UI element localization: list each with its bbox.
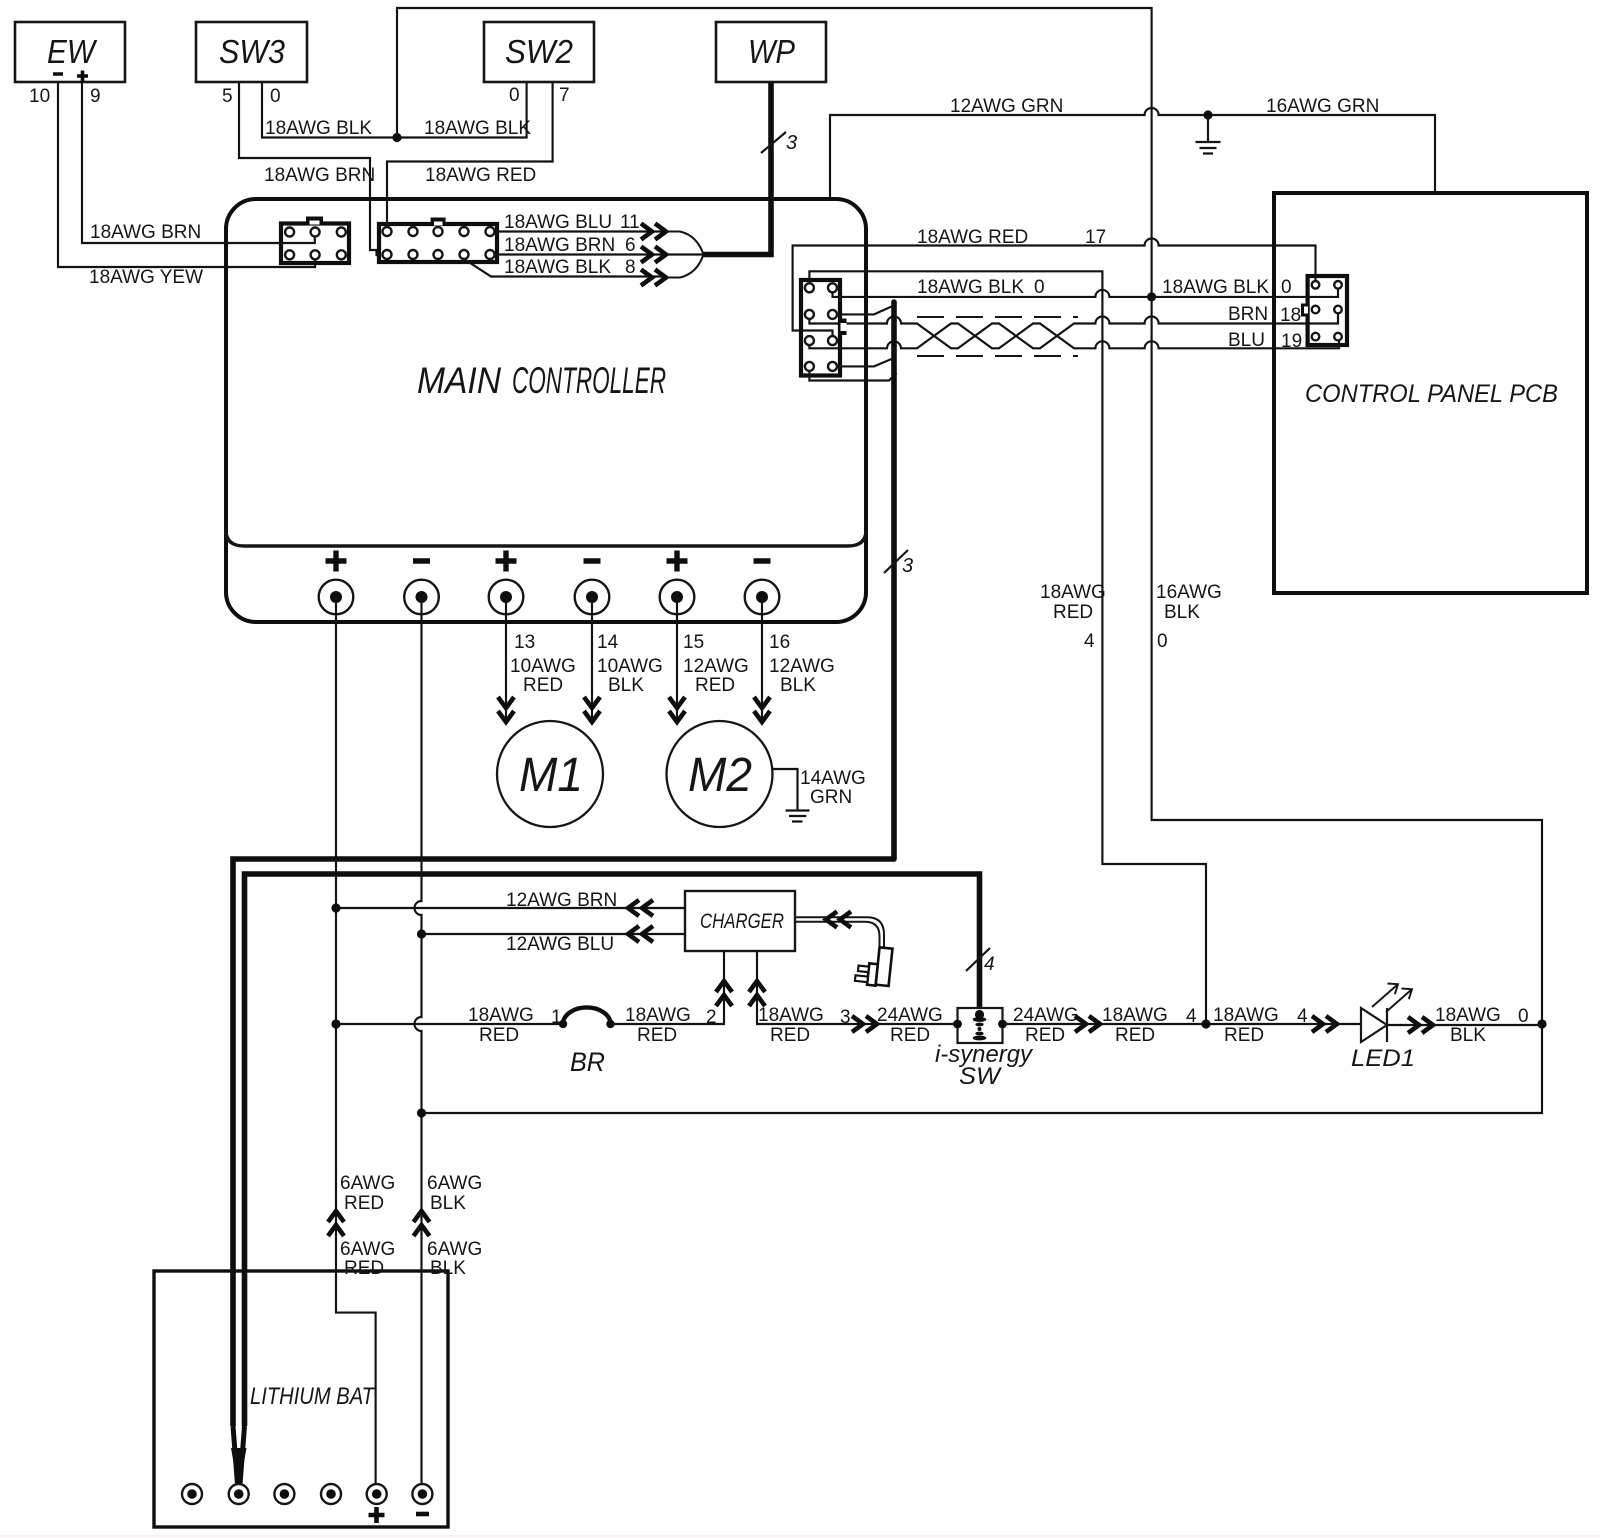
- svg-text:18AWG BRN: 18AWG BRN: [264, 165, 375, 186]
- svg-text:18AWG YEW: 18AWG YEW: [89, 267, 203, 288]
- label 18AWG RED 4a: [1102, 1005, 1197, 1046]
- svg-text:12AWG: 12AWG: [683, 656, 749, 677]
- SW3 box: [196, 22, 307, 82]
- wire J3 r4L into cable: [809, 371, 896, 381]
- svg-text:3: 3: [840, 1007, 851, 1028]
- svg-text:18AWG: 18AWG: [758, 1005, 824, 1026]
- node BRN charger tap: [331, 903, 340, 912]
- cable brace to WP: [666, 82, 797, 278]
- svg-text:RED: RED: [890, 1025, 930, 1046]
- cable bundle 3 from J3 down: [884, 302, 913, 859]
- switch i-synergy SW: [935, 1008, 1034, 1090]
- svg-text:CONTROL PANEL PCB: CONTROL PANEL PCB: [1305, 380, 1558, 408]
- svg-text:14: 14: [597, 632, 619, 653]
- terminal 4 M1 minus: [575, 580, 610, 615]
- svg-text:BLK: BLK: [430, 1258, 466, 1279]
- svg-text:18AWG RED: 18AWG RED: [425, 165, 536, 186]
- wire 18AWG RED 4 from J3 r1L: [809, 271, 1206, 1024]
- terminal 5 M2 plus: [660, 580, 695, 615]
- svg-text:16: 16: [769, 632, 790, 653]
- svg-text:18AWG BLK: 18AWG BLK: [917, 277, 1024, 298]
- label 18AWG RED 3: [758, 1005, 851, 1046]
- label 10AWG BLK: [597, 656, 663, 696]
- EW box: [15, 22, 125, 82]
- wire 13 10AWG RED: [498, 597, 514, 722]
- node BLK tap: [1147, 292, 1156, 301]
- svg-text:SW2: SW2: [505, 33, 573, 70]
- node BLK junction top: [392, 133, 401, 142]
- wire 18AWG RED 17 J3 to J4: [793, 239, 1316, 337]
- wire 15 12AWG RED: [669, 597, 685, 722]
- LITHIUM BAT box: [154, 1271, 448, 1527]
- node RED BR tap: [331, 1019, 340, 1028]
- node BLK LED junction: [1537, 1019, 1546, 1028]
- svg-text:MAIN: MAIN: [417, 360, 501, 401]
- terminal 1 plus: [319, 580, 354, 615]
- node RED 4 junction: [1201, 1019, 1210, 1028]
- label 16: [769, 632, 790, 653]
- label 10: [29, 86, 50, 107]
- fuse BR: [559, 1007, 615, 1077]
- svg-text:RED: RED: [637, 1025, 677, 1046]
- svg-text:BLU: BLU: [1228, 330, 1265, 351]
- label 7 SW2: [559, 85, 570, 106]
- battery terminal 2: [229, 1484, 249, 1504]
- svg-text:RED: RED: [344, 1193, 384, 1214]
- label 13: [514, 632, 535, 653]
- svg-text:4: 4: [1084, 631, 1095, 652]
- wire charger to i-synergy 18AWG RED 3: [749, 951, 958, 1032]
- label 12AWG RED: [683, 656, 749, 696]
- svg-text:6: 6: [625, 235, 636, 256]
- svg-text:0: 0: [1034, 277, 1045, 298]
- wire 12AWG BRN charger: [336, 900, 685, 916]
- wire SW3 pin0 18AWG BLK: [262, 82, 397, 138]
- wire battery negative cable lower bus to i-synergy: [245, 874, 980, 1426]
- label 18AWG BRN EW: [90, 222, 201, 243]
- svg-text:BRN: BRN: [1228, 304, 1268, 325]
- label 12AWG GRN: [950, 96, 1063, 117]
- wire twisted pair BRN 18: [809, 313, 1338, 348]
- label 14: [597, 632, 619, 653]
- node BLU charger tap: [417, 929, 426, 938]
- label 18AWG RED mid: [425, 165, 536, 186]
- label 6AWG BLK lower: [427, 1239, 482, 1279]
- battery terminal 5 plus: [367, 1484, 387, 1523]
- wire controller plus to battery: [336, 597, 376, 1484]
- label 24AWG RED right: [1013, 1005, 1079, 1046]
- svg-text:18AWG: 18AWG: [1040, 582, 1106, 603]
- connector J4 (6-pin, control panel): [1301, 276, 1347, 345]
- label 18AWG RED 1: [468, 1005, 562, 1046]
- label 16AWG BLK 0 vertical: [1156, 582, 1222, 652]
- label 12AWG BRN: [506, 890, 617, 911]
- wire BR to charger 18AWG RED 2: [611, 951, 733, 1024]
- svg-text:BLK: BLK: [1164, 602, 1200, 623]
- label 6AWG RED lower: [340, 1239, 395, 1279]
- wire 18AWG RED plus to BR: [336, 1023, 563, 1025]
- CONTROL PANEL PCB box: [1274, 193, 1587, 593]
- wire EW plus 18AWG BRN: [82, 82, 315, 243]
- charger AC cord: [795, 912, 884, 950]
- MAIN CONTROLLER box: [226, 199, 866, 622]
- ground symbol M2: [786, 811, 810, 822]
- label 0 SW2: [509, 85, 520, 106]
- svg-text:24AWG: 24AWG: [1013, 1005, 1079, 1026]
- svg-text:BLK: BLK: [430, 1193, 466, 1214]
- svg-text:GRN: GRN: [810, 787, 852, 808]
- svg-text:SW: SW: [959, 1063, 1002, 1090]
- wire EW minus 18AWG YEW: [58, 82, 315, 267]
- battery terminal 4: [321, 1484, 341, 1504]
- svg-text:10: 10: [29, 86, 50, 107]
- svg-text:WP: WP: [748, 33, 795, 70]
- terminal 3 M1 plus: [489, 580, 524, 615]
- label 15: [683, 632, 704, 653]
- svg-text:18AWG BLK: 18AWG BLK: [265, 118, 372, 139]
- svg-text:16AWG GRN: 16AWG GRN: [1266, 96, 1379, 117]
- svg-text:12AWG BLU: 12AWG BLU: [506, 934, 614, 955]
- svg-text:6AWG: 6AWG: [340, 1173, 395, 1194]
- node BLK bottom tap: [417, 1108, 426, 1117]
- label 18AWG RED 2: [625, 1005, 717, 1046]
- svg-text:RED: RED: [479, 1025, 519, 1046]
- svg-text:4: 4: [1186, 1006, 1197, 1027]
- svg-text:12AWG: 12AWG: [769, 656, 835, 677]
- svg-text:18AWG: 18AWG: [1102, 1005, 1168, 1026]
- label BLU 19: [1228, 330, 1302, 352]
- svg-text:16AWG: 16AWG: [1156, 582, 1222, 603]
- label 6AWG BLK upper: [427, 1173, 482, 1214]
- wire controller minus to battery: [415, 597, 422, 1484]
- label 18AWG RED 17: [917, 227, 1106, 248]
- svg-text:M1: M1: [519, 749, 583, 802]
- pins J4: [1312, 281, 1342, 340]
- wire LED to BLK 18AWG BLK 0: [1387, 1017, 1542, 1033]
- svg-text:6AWG: 6AWG: [427, 1173, 482, 1194]
- label 18AWG BRN 6: [504, 235, 636, 256]
- wire i-synergy to LED 24AWG 18AWG RED 4: [1003, 1016, 1362, 1032]
- terminal 6 M2 minus: [745, 580, 780, 615]
- svg-text:18: 18: [1280, 305, 1301, 326]
- LED LED1: [1351, 984, 1415, 1073]
- wire 14 10AWG BLK: [584, 597, 600, 722]
- wire J2 to brace 18AWG BRN 6: [495, 253, 704, 255]
- label 18AWG BLK 0 right: [1162, 277, 1292, 298]
- svg-text:18AWG BRN: 18AWG BRN: [504, 235, 615, 256]
- svg-text:18AWG BLK: 18AWG BLK: [504, 257, 611, 278]
- svg-text:18AWG: 18AWG: [468, 1005, 534, 1026]
- label 18AWG BLU 11: [504, 212, 640, 233]
- label 12AWG BLU: [506, 934, 614, 955]
- AC plug: [855, 945, 893, 987]
- label 6AWG RED upper: [340, 1173, 395, 1214]
- bottom scan edge: [0, 1536, 1600, 1537]
- svg-text:5: 5: [222, 86, 233, 107]
- svg-text:BR: BR: [570, 1047, 605, 1077]
- svg-text:RED: RED: [1053, 602, 1093, 623]
- wire SW2 pin0 18AWG BLK: [397, 82, 527, 138]
- label 18AWG BLK 0 led: [1435, 1005, 1529, 1046]
- svg-text:4: 4: [1297, 1006, 1308, 1027]
- svg-text:8: 8: [625, 257, 636, 278]
- svg-text:17: 17: [1085, 227, 1106, 248]
- battery terminal 3: [274, 1484, 294, 1504]
- wire 16 12AWG BLK: [754, 597, 770, 722]
- label 9: [90, 86, 101, 107]
- svg-text:18AWG BLK: 18AWG BLK: [1162, 277, 1269, 298]
- pins J2: [383, 227, 495, 259]
- wire J3 r4R into cable: [837, 359, 892, 366]
- svg-text:10AWG: 10AWG: [510, 656, 576, 677]
- label 18AWG BLK 8: [504, 257, 636, 278]
- svg-text:18AWG BLK: 18AWG BLK: [424, 118, 531, 139]
- chevrons BLK row: [641, 270, 666, 286]
- label 18AWG BRN mid: [264, 165, 375, 186]
- wire BLK net top bus to control panel column: [397, 8, 1152, 297]
- svg-text:0: 0: [1157, 631, 1168, 652]
- svg-text:RED: RED: [1115, 1025, 1155, 1046]
- svg-text:15: 15: [683, 632, 704, 653]
- label 18AWG RED 4 vertical: [1040, 582, 1106, 652]
- svg-text:M2: M2: [688, 749, 752, 802]
- wire battery positive cable upper bus: [233, 859, 894, 1426]
- node GRN ground junction: [1203, 110, 1212, 119]
- svg-text:12AWG BRN: 12AWG BRN: [506, 890, 617, 911]
- label BRN 18: [1228, 304, 1301, 326]
- svg-text:SW3: SW3: [219, 33, 286, 70]
- svg-text:RED: RED: [770, 1025, 810, 1046]
- chevrons BLU row: [641, 224, 666, 240]
- svg-text:18AWG: 18AWG: [1213, 1005, 1279, 1026]
- CHARGER box: [685, 891, 795, 951]
- svg-text:RED: RED: [1224, 1025, 1264, 1046]
- svg-text:2: 2: [706, 1007, 717, 1028]
- label 12AWG BLK: [769, 656, 835, 696]
- svg-text:18AWG BLU: 18AWG BLU: [504, 212, 612, 233]
- terminal 2 minus: [404, 580, 439, 615]
- twisted pair shield dashes: [917, 317, 1078, 356]
- svg-text:EW: EW: [47, 33, 98, 70]
- chevrons BRN row: [641, 247, 666, 263]
- cable 4 slash: [966, 948, 995, 975]
- svg-text:7: 7: [559, 85, 570, 106]
- wire J3 r2R into cable: [837, 307, 892, 315]
- svg-text:CONTROLLER: CONTROLLER: [512, 360, 666, 401]
- svg-text:BLK: BLK: [780, 675, 816, 696]
- pins J1: [285, 228, 346, 260]
- connector J2 (10-pin): [379, 218, 497, 263]
- wire 18AWG BLK 0 J3 to J4: [833, 289, 1339, 297]
- svg-text:CHARGER: CHARGER: [700, 910, 784, 933]
- svg-text:0: 0: [270, 86, 281, 107]
- wire J2 to brace 18AWG BLK 8: [464, 259, 666, 277]
- svg-text:19: 19: [1281, 331, 1302, 352]
- connector J1 (6-pin, EW): [281, 217, 349, 264]
- ground symbol top: [1196, 115, 1221, 154]
- battery terminal 1: [182, 1484, 202, 1504]
- wire 12AWG GRN controller to ground: [830, 108, 1435, 199]
- label 16AWG GRN: [1266, 96, 1379, 117]
- svg-text:RED: RED: [695, 675, 735, 696]
- svg-text:LED1: LED1: [1351, 1045, 1415, 1072]
- svg-text:14AWG: 14AWG: [800, 768, 866, 789]
- svg-text:0: 0: [509, 85, 520, 106]
- wire J2 to brace 18AWG BLU 11: [495, 230, 667, 232]
- svg-text:18AWG RED: 18AWG RED: [917, 227, 1028, 248]
- svg-text:LITHIUM BAT: LITHIUM BAT: [250, 1383, 376, 1410]
- svg-text:11: 11: [620, 212, 640, 233]
- label 0 SW3: [270, 86, 281, 107]
- battery terminal 6 minus: [412, 1484, 432, 1514]
- label 18AWG RED 4b: [1213, 1005, 1308, 1046]
- wire SW3 pin5 18AWG BRN to J2: [239, 82, 381, 255]
- cable taper into battery terminal: [231, 1426, 247, 1492]
- wire twisted pair BLU 19: [809, 324, 1339, 349]
- pins J3: [805, 283, 847, 371]
- svg-text:13: 13: [514, 632, 535, 653]
- connector J3 (8-pin, controller right): [801, 280, 847, 376]
- SW2 box: [484, 22, 594, 82]
- svg-text:BLK: BLK: [608, 675, 644, 696]
- label 24AWG RED left: [877, 1005, 943, 1046]
- motor M1: [497, 721, 603, 827]
- svg-text:RED: RED: [1025, 1025, 1065, 1046]
- wire 16AWG BLK 0 vertical: [422, 297, 1543, 1113]
- label 18AWG YEW EW: [89, 267, 203, 288]
- svg-text:RED: RED: [523, 675, 563, 696]
- WP box: [716, 22, 826, 82]
- label 14AWG GRN: [800, 768, 866, 808]
- label 5: [222, 86, 233, 107]
- chevrons battery wires: [328, 1211, 430, 1236]
- wire 12AWG BLU charger: [422, 926, 686, 942]
- svg-text:6AWG: 6AWG: [427, 1239, 482, 1260]
- label 18AWG BLK 0 left: [917, 277, 1045, 298]
- svg-text:6AWG: 6AWG: [340, 1239, 395, 1260]
- svg-text:3: 3: [902, 555, 913, 577]
- svg-text:18AWG BRN: 18AWG BRN: [90, 222, 201, 243]
- motor M2: [667, 721, 773, 827]
- svg-text:1: 1: [551, 1007, 562, 1028]
- svg-text:18AWG: 18AWG: [1435, 1005, 1501, 1026]
- wire SW2 pin7 18AWG RED to J2: [387, 82, 553, 227]
- svg-text:18AWG: 18AWG: [625, 1005, 691, 1026]
- svg-text:0: 0: [1518, 1006, 1529, 1027]
- svg-text:12AWG GRN: 12AWG GRN: [950, 96, 1063, 117]
- svg-text:10AWG: 10AWG: [597, 656, 663, 677]
- svg-text:BLK: BLK: [1450, 1025, 1486, 1046]
- svg-text:3: 3: [786, 132, 797, 154]
- svg-text:9: 9: [90, 86, 101, 107]
- label 10AWG RED: [510, 656, 576, 696]
- label 18AWG BLK left: [265, 118, 372, 139]
- svg-text:24AWG: 24AWG: [877, 1005, 943, 1026]
- svg-text:RED: RED: [344, 1258, 384, 1279]
- wire M2 14AWG GRN to ground: [772, 769, 798, 810]
- svg-text:4: 4: [984, 954, 995, 975]
- label 18AWG BLK right: [424, 118, 531, 139]
- svg-text:0: 0: [1281, 277, 1292, 298]
- terminal strip plus-minus signs: [326, 551, 771, 572]
